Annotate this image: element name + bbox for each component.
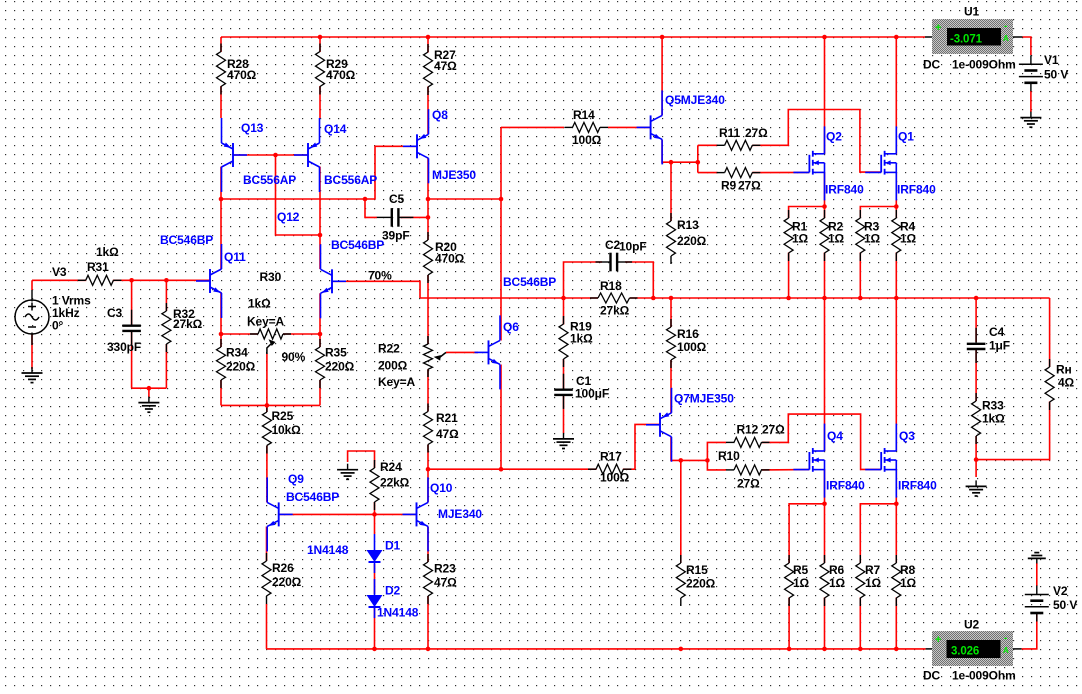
svg-text:MJE350: MJE350 — [432, 168, 476, 182]
resistor R4 — [892, 210, 901, 261]
wire R5 bottom — [788, 598, 790, 649]
label R16 — [677, 327, 707, 354]
svg-text:Q13: Q13 — [241, 121, 264, 135]
transistor Q7 — [646, 388, 672, 462]
transistor Q13 — [222, 118, 248, 192]
svg-text:100Ω: 100Ω — [600, 470, 630, 484]
svg-text:R21: R21 — [436, 411, 458, 425]
label R17 — [600, 449, 630, 484]
svg-text:-: - — [1004, 21, 1007, 32]
label R3 — [864, 219, 881, 245]
svg-text:R24: R24 — [380, 460, 402, 474]
wire node A horizontal — [221, 146, 417, 199]
wire R10 to Q4 gate — [762, 469, 809, 471]
resistor R17 — [588, 464, 631, 474]
junction node A / C5 left — [363, 197, 368, 202]
label R27 — [434, 48, 457, 73]
capacitor C5 — [377, 208, 414, 227]
label Q14 — [324, 122, 347, 136]
label R6 — [829, 563, 846, 590]
svg-text:1kΩ: 1kΩ — [96, 245, 119, 259]
transistor Q10 — [403, 477, 429, 551]
wire Q2 source node — [824, 172, 826, 218]
wire C3 bottom lead — [131, 331, 133, 388]
svg-text:R12: R12 — [737, 422, 759, 436]
resistor R35 — [316, 339, 325, 388]
svg-text:R9: R9 — [721, 178, 737, 192]
wire R29 top lead — [319, 37, 321, 118]
svg-text:C3: C3 — [107, 306, 123, 320]
label BC556AP Q13 — [243, 173, 296, 187]
junction bottom rail / R6 — [822, 647, 827, 652]
svg-text:R34: R34 — [226, 345, 248, 359]
label R35 — [325, 345, 355, 373]
wire R32 top lead — [165, 280, 167, 311]
svg-text:Key=A: Key=A — [247, 314, 285, 328]
mosfet Q3 — [865, 424, 896, 498]
label 1N4148 D1 — [307, 543, 349, 557]
junction output / R1 — [786, 296, 791, 301]
svg-text:1kΩ: 1kΩ — [570, 331, 593, 345]
svg-text:47Ω: 47Ω — [434, 59, 457, 73]
junction output / C2 right — [651, 296, 656, 301]
wire D2 bottom — [374, 608, 376, 649]
label Q7MJE350 — [674, 391, 734, 405]
wire Q8 collector to R20 — [427, 158, 429, 240]
label U1 — [964, 4, 980, 18]
resistor R2 — [820, 210, 829, 261]
resistor R1 — [784, 210, 793, 261]
label R1 — [792, 219, 809, 245]
wire Q5 emitter node — [662, 140, 698, 163]
ground under V3 — [22, 367, 43, 383]
svg-text:V3: V3 — [52, 265, 67, 279]
label R11 — [719, 126, 768, 140]
resistor R25 — [262, 404, 271, 454]
junction node A / Q13 collector — [219, 197, 224, 202]
wire Q5 collector to rail — [661, 37, 663, 116]
svg-text:R30: R30 — [260, 270, 282, 284]
svg-text:R8: R8 — [900, 563, 916, 577]
wire R30 left — [221, 333, 258, 335]
svg-text:U2: U2 — [964, 617, 980, 631]
svg-text:4Ω: 4Ω — [1058, 375, 1075, 389]
label Q9 — [288, 472, 304, 486]
label R14 — [572, 108, 602, 147]
resistor R10 — [726, 465, 770, 475]
wire Q2 drain — [824, 37, 826, 154]
junction R27 / top rail — [426, 35, 431, 40]
junction input filter ground — [147, 386, 152, 391]
wire R30 wiper column — [266, 354, 268, 406]
wire R27 column — [427, 37, 429, 134]
junction output / C4 — [974, 296, 979, 301]
junction node B / R21 / Q10 — [426, 467, 431, 472]
svg-text:R5: R5 — [793, 563, 809, 577]
svg-text:R33: R33 — [982, 398, 1004, 412]
wire Q7 collector node — [671, 437, 707, 460]
svg-text:D1: D1 — [385, 538, 401, 552]
svg-text:C4: C4 — [989, 325, 1005, 339]
wire R4 bottom — [895, 253, 897, 299]
svg-text:470Ω: 470Ω — [227, 68, 257, 82]
svg-text:IRF840: IRF840 — [897, 182, 936, 196]
svg-text:0°: 0° — [52, 318, 64, 332]
label R24 — [380, 460, 410, 490]
wire R20 to R22 — [427, 275, 429, 344]
label 90 percent — [282, 350, 306, 364]
wire Q11 emitter lead — [220, 292, 222, 334]
wire R33 to ground — [975, 436, 977, 477]
label R30 — [247, 270, 285, 329]
label RH — [1056, 362, 1075, 389]
svg-text:1e-009Ohm: 1e-009Ohm — [952, 57, 1016, 71]
label R20 — [435, 240, 465, 265]
wire D1 top lead — [374, 514, 376, 534]
svg-text:Q9: Q9 — [288, 472, 304, 486]
wire RH bottom return — [976, 401, 1050, 460]
wire V3 top lead — [31, 280, 33, 290]
svg-text:27Ω: 27Ω — [762, 422, 785, 436]
transistor Q14 — [294, 118, 320, 192]
label R31 — [87, 245, 119, 274]
label Q5MJE340 — [665, 93, 725, 107]
svg-text:470Ω: 470Ω — [435, 251, 465, 265]
potentiometer R30 — [250, 329, 291, 354]
svg-text:R6: R6 — [829, 563, 845, 577]
wire R28 top lead — [220, 37, 222, 118]
label Q11 — [224, 250, 246, 264]
label Q4 — [827, 429, 843, 443]
wire Q1 source node — [895, 172, 897, 218]
label U2 mode — [923, 668, 1016, 682]
battery V1 — [1019, 55, 1043, 91]
label BC546BP Q6 — [503, 275, 556, 289]
label D1 — [385, 538, 401, 552]
wire R24 bottom lead — [374, 502, 376, 514]
label R29 — [326, 57, 356, 82]
label BC546BP Q9 — [286, 490, 339, 504]
wire Q4 source node — [824, 470, 826, 563]
label Q13 — [241, 121, 264, 135]
wire node B line — [428, 468, 597, 470]
label R32 — [173, 307, 203, 331]
resistor R7 — [856, 555, 865, 606]
svg-text:1Ω: 1Ω — [864, 231, 881, 245]
svg-text:Q5MJE340: Q5MJE340 — [665, 93, 725, 107]
svg-text:R10: R10 — [718, 449, 740, 463]
wire R13 top lead — [670, 162, 672, 221]
wire C5 left branch — [365, 199, 377, 217]
wire C1 to ground — [563, 396, 565, 434]
wire C3/R32 ground link — [132, 387, 167, 389]
wire R11/R9 split — [697, 145, 699, 172]
svg-text:R16: R16 — [677, 327, 699, 341]
svg-text:50 V: 50 V — [1044, 67, 1068, 81]
svg-text:470Ω: 470Ω — [326, 68, 356, 82]
wire Q10 emitter to R23 — [427, 527, 429, 563]
label MJE340 Q10 — [438, 507, 482, 521]
resistor R21 — [424, 404, 433, 453]
wire R1 bottom — [788, 253, 790, 299]
wire tail current rail — [221, 404, 320, 406]
wire R9 left lead — [698, 172, 718, 174]
resistor R13 — [667, 213, 676, 264]
wire Q9 emitter to R26 — [266, 527, 268, 562]
junction R33 / RH return ground — [974, 457, 979, 462]
svg-text:47Ω: 47Ω — [434, 575, 457, 589]
resistor R14 — [565, 122, 609, 132]
label MJE350 Q8 — [432, 168, 476, 182]
capacitor C3 — [122, 310, 141, 345]
label R21 — [436, 411, 459, 441]
resistor R20 — [424, 232, 433, 283]
wire R22 to R21 — [427, 369, 429, 411]
label IRF840 Q2 — [825, 182, 864, 196]
svg-text:R15: R15 — [686, 563, 708, 577]
svg-text:BC556AP: BC556AP — [243, 173, 296, 187]
wire RH top lead — [1049, 298, 1051, 367]
svg-text:1μF: 1μF — [989, 338, 1010, 352]
resistor R34 — [217, 339, 226, 388]
junction Q14 collector / Q12 — [318, 233, 323, 238]
label C3 — [107, 306, 141, 354]
svg-text:1kΩ: 1kΩ — [248, 296, 271, 310]
wire Q10 collector lead — [427, 469, 429, 502]
svg-text:R7: R7 — [865, 563, 881, 577]
junction node A / Q8 collector — [426, 197, 431, 202]
wire R34 top lead — [220, 334, 222, 347]
svg-text:DC: DC — [923, 668, 941, 682]
svg-text:Q3: Q3 — [899, 429, 915, 443]
wire R7 top lead — [860, 504, 896, 563]
wire +50V top rail — [221, 36, 925, 38]
wire R35 top lead — [319, 334, 321, 347]
resistor R19 — [559, 316, 568, 367]
resistor R23 — [424, 554, 433, 604]
junction output / R2 Q4 drain — [822, 296, 827, 301]
junction Q13-Q14 bases — [273, 153, 278, 158]
svg-text:+: + — [935, 22, 941, 34]
label R26 — [272, 561, 302, 589]
junction bottom rail / R7 — [858, 647, 863, 652]
junction input / C3 — [129, 278, 134, 283]
junction Q11 emitter / R30 / R34 — [219, 332, 224, 337]
wire Q3 drain — [895, 298, 897, 451]
mosfet Q4 — [793, 424, 824, 498]
label R22 — [378, 341, 416, 389]
svg-text:IRF840: IRF840 — [826, 478, 865, 492]
wire bottom rail — [267, 648, 926, 650]
junction input / R32 — [164, 278, 169, 283]
wire R30 right — [283, 333, 320, 335]
wire C2 parallel loop — [564, 262, 603, 298]
svg-text:1Ω: 1Ω — [792, 231, 809, 245]
wire V3 bottom lead — [31, 334, 33, 369]
label V1 — [1044, 53, 1068, 82]
transistor Q8 — [403, 109, 429, 183]
wire R2 bottom — [824, 253, 826, 299]
wire C4 to R33 — [975, 350, 977, 401]
wire Q1 drain — [895, 37, 897, 154]
label R18 — [600, 279, 630, 318]
svg-text:Q6: Q6 — [503, 320, 519, 334]
ground under C1 — [553, 433, 574, 449]
mosfet Q2 — [793, 126, 824, 200]
transistor Q6 — [475, 315, 501, 389]
label C2 — [605, 238, 647, 254]
wire R8 bottom — [895, 598, 897, 649]
wire R23 bottom — [427, 596, 429, 649]
svg-text:1e-009Ohm: 1e-009Ohm — [952, 668, 1016, 682]
svg-text:27Ω: 27Ω — [738, 178, 761, 192]
svg-text:47Ω: 47Ω — [436, 427, 459, 441]
wire R5 top lead — [789, 504, 824, 563]
svg-text:50 V: 50 V — [1053, 598, 1077, 612]
svg-text:10pF: 10pF — [619, 239, 647, 253]
wire R21 to node B — [427, 445, 429, 470]
svg-text:+: + — [935, 634, 941, 646]
wire D1 to D2 — [374, 564, 376, 594]
wire R10 left lead — [707, 460, 726, 470]
svg-text:BC546BP: BC546BP — [331, 238, 384, 252]
svg-text:R25: R25 — [272, 409, 294, 423]
resistor R5 — [785, 555, 794, 606]
label R28 — [227, 57, 257, 82]
label R25 — [272, 409, 302, 437]
svg-text:22kΩ: 22kΩ — [380, 475, 410, 489]
label R10 — [718, 449, 760, 491]
junction Q1 source / R3-R4 — [894, 204, 899, 209]
wire Q12 base feedback — [332, 281, 420, 298]
wire R12 left lead — [707, 442, 726, 460]
junction R12-R10 left — [705, 458, 710, 463]
svg-text:Q7MJE350: Q7MJE350 — [674, 391, 734, 405]
svg-text:Q2: Q2 — [826, 129, 842, 143]
svg-text:Rн: Rн — [1056, 362, 1072, 376]
label IRF840 Q1 — [897, 182, 936, 196]
label 1N4148 D2 — [377, 605, 419, 619]
svg-text:IRF840: IRF840 — [825, 182, 864, 196]
label R12 — [737, 422, 786, 436]
diode D2 — [367, 579, 383, 618]
resistor R26 — [262, 553, 271, 604]
junction output / R19 — [561, 296, 566, 301]
svg-text:Key=A: Key=A — [378, 375, 416, 389]
svg-text:R17: R17 — [600, 449, 622, 463]
svg-text:V2: V2 — [1053, 584, 1068, 598]
svg-text:330pF: 330pF — [107, 340, 141, 354]
svg-text:1Ω: 1Ω — [829, 576, 846, 590]
transistor Q9 — [267, 477, 293, 551]
svg-text:1kΩ: 1kΩ — [982, 411, 1005, 425]
wire U1 to V1 — [1023, 37, 1031, 55]
svg-text:Q12: Q12 — [277, 210, 300, 224]
svg-text:10kΩ: 10kΩ — [272, 423, 302, 437]
source V3 — [15, 290, 49, 345]
svg-text:R11: R11 — [719, 126, 740, 140]
junction Q5 emitter / R11-R9 — [696, 160, 701, 165]
wire Q6 emitter lead — [500, 365, 502, 470]
label Q8 — [432, 108, 448, 122]
svg-text:V1: V1 — [1044, 53, 1059, 67]
wire R11 left lead — [698, 144, 718, 146]
capacitor C1 — [554, 374, 573, 409]
wire R17 right lead — [623, 468, 636, 470]
svg-text:90%: 90% — [282, 350, 306, 364]
label C4 — [989, 325, 1010, 353]
junction output / R4 Q3 drain — [894, 296, 899, 301]
junction tail / R25 — [265, 403, 270, 408]
svg-text:100Ω: 100Ω — [677, 340, 707, 354]
label Q6 — [503, 320, 519, 334]
label R5 — [793, 563, 810, 590]
junction C5 right / R20 — [426, 215, 431, 220]
resistor RH load — [1045, 359, 1054, 410]
resistor R33 — [972, 393, 981, 444]
resistor R6 — [820, 555, 829, 606]
label V2 — [1053, 584, 1077, 612]
resistor R28 — [217, 44, 226, 95]
wire C2 right lead — [625, 262, 653, 298]
svg-text:220Ω: 220Ω — [686, 576, 716, 590]
resistor R3 — [856, 210, 865, 261]
junction Q3 source / R7-R8 — [894, 502, 899, 507]
capacitor C4 — [967, 328, 986, 363]
label BC556AP Q14 — [324, 173, 377, 187]
svg-text:DC: DC — [923, 57, 941, 71]
wire R9 to Q2 gate — [752, 171, 809, 173]
wire V2 to U2 — [1022, 613, 1037, 649]
wire R25 top lead — [266, 405, 268, 412]
junction bottom rail / R15 — [679, 647, 684, 652]
junction bottom rail / R8 — [894, 647, 899, 652]
svg-text:27Ω: 27Ω — [745, 126, 768, 140]
junction output / R13-R16 — [669, 296, 674, 301]
svg-text:Q10: Q10 — [430, 481, 453, 495]
wire output rail — [630, 297, 1050, 299]
ground near R24 — [337, 464, 358, 480]
label IRF840 Q3 — [898, 478, 937, 492]
capacitor C2 — [596, 253, 633, 272]
wire R15 top lead — [680, 460, 682, 563]
resistor R27 — [424, 44, 433, 95]
resistor R31 — [78, 275, 122, 285]
wire R24 top corner — [348, 451, 375, 468]
svg-text:220Ω: 220Ω — [226, 359, 256, 373]
wire R35 bottom lead — [319, 380, 321, 405]
junction bottom rail / D2 — [372, 647, 377, 652]
multimeter U2 — [926, 631, 1022, 666]
label D2 — [385, 583, 401, 597]
label C5 — [382, 192, 410, 243]
wire ground stub at input filter — [148, 388, 150, 397]
resistor R11 — [717, 140, 761, 150]
ground under input filter — [138, 397, 159, 413]
svg-text:R22: R22 — [378, 341, 400, 355]
junction Q5 emitter / R13 — [669, 160, 674, 165]
label IRF840 Q4 — [826, 478, 865, 492]
wire node A to Q6 collector — [428, 198, 501, 200]
wire R1 top lead — [789, 207, 825, 219]
wire R19 top lead — [563, 298, 565, 325]
resistor R29 — [316, 44, 325, 95]
svg-text:100μF: 100μF — [575, 386, 609, 400]
wire R11 to Q1 gate — [752, 110, 881, 173]
label Q1 — [898, 129, 914, 143]
wire R32 bottom lead — [165, 344, 167, 388]
label R23 — [434, 561, 457, 589]
